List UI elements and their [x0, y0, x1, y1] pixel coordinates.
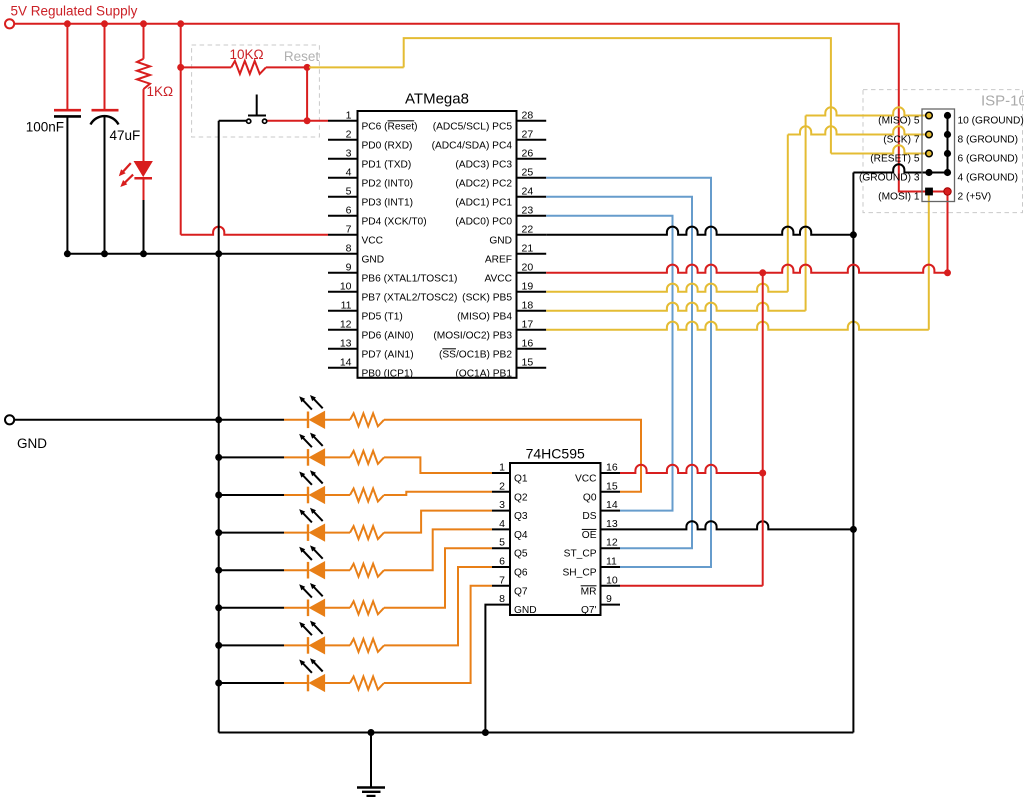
svg-text:7: 7: [346, 223, 352, 235]
pin 11 U2 SH_CP: [601, 566, 621, 568]
svg-text:16: 16: [606, 462, 618, 474]
svg-text:25: 25: [522, 166, 534, 178]
wire D1 cathode red: [143, 178, 145, 200]
junction on 5V rail: [64, 20, 71, 27]
pin 1 U2 Q1: [492, 472, 510, 474]
LED D6 arrow 1: [299, 547, 312, 560]
pin 15 U1 (OC1A) PB1: [517, 367, 547, 369]
wire LED 8 anode: [284, 682, 308, 684]
ISP group dashed box: [863, 90, 1023, 213]
wire gnd vertical right: [852, 173, 854, 733]
LED D5 orange: [307, 524, 309, 541]
svg-text:4: 4: [346, 166, 352, 178]
svg-text:PB0 (ICP1): PB0 (ICP1): [362, 368, 414, 379]
junction gnd rail: [101, 250, 108, 257]
junction LED row 7: [215, 642, 222, 649]
pin ISP right 8 (GROUND): [944, 131, 951, 138]
wire LED row 6 feed: [219, 607, 284, 609]
svg-text:8: 8: [499, 593, 505, 605]
pin 22 U1 GND: [517, 234, 547, 236]
LED D5 arrow 2: [310, 508, 323, 521]
pin 2 U2 Q2: [492, 491, 510, 493]
wire switch to node: [267, 120, 307, 122]
wire red vertical: [762, 273, 764, 586]
resistor R3 LED row 1: [350, 413, 384, 426]
junction gnd rail: [140, 250, 147, 257]
junction LED row 3: [215, 492, 222, 499]
wire LED row 4 feed: [219, 532, 284, 534]
wire C2 top: [104, 24, 106, 110]
node 5V: top rail: [10, 24, 948, 192]
pin ISP right 4 (GROUND): [944, 169, 951, 176]
pin 14 U2 DS: [601, 510, 621, 512]
wire MISO riser: [805, 116, 807, 311]
wire LED row 7 to U2 pin 6: [384, 567, 492, 645]
pin 7 U1 VCC: [328, 234, 358, 236]
LED D3 arrow 1: [299, 434, 312, 447]
svg-text:MR: MR: [581, 586, 597, 597]
wire LED 8 to resistor: [325, 682, 350, 684]
junction on 5V rail: [101, 20, 108, 27]
svg-text:Q3: Q3: [514, 511, 528, 522]
pin 3 U2 Q3: [492, 510, 510, 512]
wire C1 top: [66, 24, 68, 110]
LED D7 orange: [307, 600, 309, 617]
svg-text:5V Regulated Supply: 5V Regulated Supply: [11, 4, 138, 19]
svg-text:23: 23: [522, 204, 534, 216]
svg-text:Q7: Q7: [514, 586, 528, 597]
svg-text:PD3 (INT1): PD3 (INT1): [362, 197, 414, 208]
pin 23 U1 (ADC0) PC0: [517, 215, 547, 217]
svg-text:VCC: VCC: [362, 235, 384, 246]
pin 8 U1 GND: [328, 253, 358, 255]
svg-text:Reset: Reset: [284, 49, 320, 64]
svg-text:12: 12: [606, 537, 618, 549]
LED D2 arrow 1: [299, 396, 312, 409]
wire +5V isp down: [947, 192, 949, 273]
pin ISP left (RESET) 5: [926, 150, 933, 157]
svg-text:22: 22: [522, 223, 534, 235]
svg-text:24: 24: [522, 185, 534, 197]
ground symbol: [357, 733, 385, 797]
junction LED row 2: [215, 454, 222, 461]
wire LED row 5 feed: [219, 569, 284, 571]
svg-text:(ADC1) PC1: (ADC1) PC1: [455, 197, 512, 208]
wire MOSI pb3: [546, 322, 929, 330]
pin 9 U1 PB6 (XTAL1/TOSC1): [328, 272, 358, 274]
junction ground symbol: [368, 729, 375, 736]
wire LED 5 anode: [284, 569, 308, 571]
svg-text:Q6: Q6: [514, 568, 528, 579]
wire pin22 GND: [546, 227, 853, 235]
svg-text:(MOSI/OC2) PB3: (MOSI/OC2) PB3: [433, 330, 512, 341]
pin 14 U1 PB0 (ICP1): [328, 367, 358, 369]
svg-text:Q4: Q4: [514, 530, 528, 541]
wire ISP ground3: [853, 164, 947, 172]
pin 6 U2 Q6: [492, 566, 510, 568]
junction LED row 8: [215, 680, 222, 687]
wire LED row 3 feed: [219, 494, 284, 496]
wire LED row 8 feed: [219, 682, 284, 684]
LED D6 orange: [307, 562, 309, 579]
wire C1 bottom: [66, 116, 68, 253]
svg-text:3: 3: [499, 499, 505, 511]
svg-text:15: 15: [522, 356, 534, 368]
svg-text:2: 2: [499, 480, 505, 492]
svg-text:Q5: Q5: [514, 549, 528, 560]
pin 9 U2 Q7': [601, 604, 621, 606]
pin 17 U1 (MOSI/OC2) PB3: [517, 329, 547, 331]
svg-text:GND: GND: [489, 235, 512, 246]
pin 11 U1 PD5 (T1): [328, 310, 358, 312]
svg-text:20: 20: [522, 261, 534, 273]
svg-text:13: 13: [340, 337, 352, 349]
reset group dashed box: [192, 45, 320, 137]
LED D6 arrow 2: [310, 545, 323, 558]
pin 5 U2 Q5: [492, 547, 510, 549]
pin ISP right 2 (+5V): [944, 188, 951, 195]
svg-text:17: 17: [522, 318, 534, 330]
wire 595 VCC: [620, 465, 763, 473]
svg-text:9: 9: [346, 261, 352, 273]
LED D8 arrow 2: [310, 621, 323, 634]
pin 7 U2 Q7: [492, 585, 510, 587]
pin 16 U2 VCC: [601, 472, 621, 474]
wire LED row 1 to U2 pin 15 Q0: [384, 420, 641, 492]
svg-text:10: 10: [340, 280, 352, 292]
LED D8 arrow 1: [299, 622, 312, 635]
svg-text:1KΩ: 1KΩ: [147, 84, 174, 99]
junction GND pin22: [850, 231, 857, 238]
LED D2 orange: [307, 412, 309, 429]
pin ISP left (GROUND) 3: [925, 169, 932, 176]
pin 6 U1 PD4 (XCK/T0): [328, 215, 358, 217]
pin 26 U1 (ADC3) PC3: [517, 158, 547, 160]
wire LED 7 to resistor: [325, 644, 350, 646]
junction OE gnd: [850, 526, 857, 533]
wire LED 6 to resistor: [325, 607, 350, 609]
wire SCK pb5: [546, 284, 788, 292]
LED D9 arrow 1: [299, 660, 312, 673]
LED D7 arrow 1: [299, 584, 312, 597]
pin 10 U2 MR: [601, 585, 621, 587]
svg-text:OE: OE: [582, 530, 597, 541]
wire 5V branch down: [180, 24, 182, 235]
svg-text:16: 16: [522, 337, 534, 349]
svg-text:(OC1A) PB1: (OC1A) PB1: [455, 368, 512, 379]
svg-text:PD5 (T1): PD5 (T1): [362, 311, 403, 322]
svg-text:ST_CP: ST_CP: [564, 549, 597, 560]
resistor R5 LED row 3: [350, 489, 384, 502]
svg-text:(MOSI) 1: (MOSI) 1: [878, 192, 920, 203]
svg-text:VCC: VCC: [575, 474, 597, 485]
junction 10K: [177, 64, 184, 71]
LED D5 arrow 1: [299, 509, 312, 522]
pin 3 U1 PD1 (TXD): [328, 158, 358, 160]
svg-text:AREF: AREF: [485, 254, 512, 265]
svg-text:(ADC0) PC0: (ADC0) PC0: [455, 216, 512, 227]
connector J1 ISP-10 body: [922, 109, 955, 202]
junction on 5V rail: [140, 20, 147, 27]
LED D9 orange: [307, 675, 309, 692]
wire LED row 4 to U2 pin 3: [384, 511, 492, 533]
capacitor C1 100nF: [54, 109, 81, 112]
resistor R10 LED row 8: [350, 677, 384, 690]
pin 2 U1 PD0 (RXD): [328, 139, 358, 141]
svg-text:10: 10: [606, 574, 618, 586]
svg-text:5: 5: [499, 537, 505, 549]
wire LED 3 to resistor: [325, 494, 350, 496]
pin 4 U1 PD2 (INT0): [328, 177, 358, 179]
wire LED 1 to resistor: [325, 419, 350, 421]
wire LED 4 anode: [284, 532, 308, 534]
pin ISP left (SCK) 7: [926, 131, 933, 138]
pin 21 U1 AREF: [517, 253, 547, 255]
svg-text:6 (GROUND): 6 (GROUND): [958, 154, 1019, 165]
wire MOSI riser: [928, 192, 930, 330]
wire LED row 3 to U2 pin 2: [384, 492, 492, 495]
svg-text:27: 27: [522, 128, 534, 140]
wire PC0 pin23 to DS: [546, 216, 672, 511]
LED D4 arrow 2: [310, 470, 323, 483]
pin 13 U2 OE: [601, 528, 621, 530]
wire R2 to node: [266, 66, 307, 68]
LED D4 orange: [307, 487, 309, 504]
svg-text:9: 9: [606, 593, 612, 605]
wire SCK to ISP: [788, 126, 929, 134]
LED D3 arrow 2: [310, 433, 323, 446]
svg-text:8 (GROUND): 8 (GROUND): [958, 135, 1019, 146]
pin 13 U1 PD7 (AIN1): [328, 348, 358, 350]
junction LED row 4: [215, 529, 222, 536]
pin 5 U1 PD3 (INT1): [328, 196, 358, 198]
switch SW1 reset pushbutton: [247, 95, 267, 124]
svg-text:6: 6: [499, 556, 505, 568]
IC U2 74HC595 body: [510, 463, 601, 615]
wire LED row 1 feed: [219, 419, 284, 421]
pin 12 U2 ST_CP: [601, 547, 621, 549]
terminal 5V supply: [5, 19, 14, 28]
svg-text:PD2 (INT0): PD2 (INT0): [362, 178, 414, 189]
wire LED row 8 to U2 pin 7: [384, 586, 492, 683]
wire U2 GND to rail: [485, 605, 492, 733]
svg-text:Q7': Q7': [581, 605, 597, 616]
wire 5V to VCC pin7: [181, 227, 328, 235]
svg-text:100nF: 100nF: [26, 120, 64, 135]
svg-text:4 (GROUND): 4 (GROUND): [958, 173, 1019, 184]
pin 20 U1 AVCC: [517, 272, 547, 274]
wire node to pin1: [307, 120, 328, 122]
svg-text:13: 13: [606, 518, 618, 530]
wire GND terminal: [14, 419, 219, 421]
wire D1 to gnd rail: [143, 200, 145, 254]
wire MISO pb4: [546, 303, 805, 311]
LED D7 arrow 2: [310, 583, 323, 596]
svg-text:(MISO) PB4: (MISO) PB4: [457, 311, 512, 322]
pin 25 U1 (ADC2) PC2: [517, 177, 547, 179]
junction 595 VCC: [759, 470, 766, 477]
svg-text:(GROUND) 3: (GROUND) 3: [859, 173, 920, 184]
svg-text:PD4 (XCK/T0): PD4 (XCK/T0): [362, 216, 427, 227]
svg-text:ATMega8: ATMega8: [405, 91, 469, 108]
wire LED 4 to resistor: [325, 532, 350, 534]
svg-text:(ADC3) PC3: (ADC3) PC3: [455, 159, 512, 170]
wire reset yellow riser: [404, 38, 831, 153]
svg-text:1: 1: [499, 462, 505, 474]
svg-text:AVCC: AVCC: [484, 273, 512, 284]
svg-text:PD1 (TXD): PD1 (TXD): [362, 159, 412, 170]
svg-text:3: 3: [346, 147, 352, 159]
junction LED row 5: [215, 567, 222, 574]
junction at pin1 row: [304, 117, 311, 124]
wire LED 7 anode: [284, 644, 308, 646]
LED D1 red: [134, 162, 152, 177]
svg-text:Q0: Q0: [583, 492, 597, 503]
wire ISP ground bus: [947, 116, 949, 173]
svg-text:PD0 (RXD): PD0 (RXD): [362, 140, 413, 151]
svg-text:GND: GND: [514, 605, 537, 616]
svg-text:18: 18: [522, 299, 534, 311]
wire LED 2 to resistor: [325, 456, 350, 458]
svg-text:SH_CP: SH_CP: [563, 568, 597, 579]
svg-text:(SS/OC1B) PB2: (SS/OC1B) PB2: [439, 349, 512, 360]
svg-text:(SCK) 7: (SCK) 7: [883, 135, 920, 146]
svg-text:26: 26: [522, 147, 534, 159]
pin ISP left (MISO) 5: [926, 112, 933, 119]
svg-text:(ADC5/SCL) PC5: (ADC5/SCL) PC5: [433, 121, 513, 132]
wire reset to ISP pin: [831, 145, 929, 153]
pin 12 U1 PD6 (AIN0): [328, 329, 358, 331]
junction gnd rail: [215, 250, 222, 257]
junction reset node: [304, 64, 311, 71]
svg-text:4: 4: [499, 518, 505, 530]
svg-text:11: 11: [341, 299, 352, 311]
svg-text:8: 8: [346, 242, 352, 254]
wire to R2: [181, 66, 232, 68]
svg-text:PB7 (XTAL2/TOSC2): PB7 (XTAL2/TOSC2): [362, 292, 458, 303]
svg-text:2: 2: [346, 128, 352, 140]
svg-text:12: 12: [340, 318, 352, 330]
svg-text:GND: GND: [362, 254, 385, 265]
svg-text:14: 14: [606, 499, 618, 511]
svg-text:PB6 (XTAL1/TOSC1): PB6 (XTAL1/TOSC1): [362, 273, 458, 284]
wire R1 top: [143, 24, 145, 59]
wire gnd column vertical: [218, 121, 220, 733]
svg-text:Q2: Q2: [514, 492, 528, 503]
svg-text:21: 21: [522, 242, 534, 254]
svg-text:5: 5: [346, 185, 352, 197]
junction LED row 6: [215, 604, 222, 611]
wire LED 5 to resistor: [325, 569, 350, 571]
resistor R6 LED row 4: [350, 526, 384, 539]
svg-text:GND: GND: [17, 436, 47, 451]
svg-text:PD6 (AIN0): PD6 (AIN0): [362, 330, 414, 341]
svg-text:(SCK) PB5: (SCK) PB5: [462, 292, 512, 303]
wire PC2 pin25 to SH_CP: [546, 178, 711, 567]
resistor R7 LED row 5: [350, 564, 384, 577]
svg-text:10KΩ: 10KΩ: [229, 47, 263, 62]
svg-text:DS: DS: [582, 511, 596, 522]
junction gnd rail: [64, 250, 71, 257]
pin 27 U1 (ADC4/SDA) PC4: [517, 139, 547, 141]
pin 1 U1 PC6 (Reset): [328, 120, 358, 122]
svg-text:74HC595: 74HC595: [526, 446, 585, 462]
LED D1 arrow 2: [120, 175, 133, 187]
resistor R1 1K: [137, 59, 150, 89]
svg-text:6: 6: [346, 204, 352, 216]
resistor R2 10K: [231, 61, 266, 74]
op IC U1 ATMega8 body: [358, 111, 517, 378]
LED D3 orange: [307, 449, 309, 466]
LED D2 arrow 2: [310, 395, 323, 408]
terminal GND: [5, 415, 14, 424]
wire LED 1 anode: [284, 419, 308, 421]
svg-text:PD7 (AIN1): PD7 (AIN1): [362, 349, 414, 360]
svg-text:Q1: Q1: [514, 474, 528, 485]
svg-text:28: 28: [522, 109, 534, 121]
svg-text:15: 15: [606, 480, 618, 492]
wire AVCC: [546, 265, 947, 273]
resistor R4 LED row 2: [350, 451, 384, 464]
pin 16 U1 (SS/OC1B) PB2: [517, 348, 547, 350]
wire C2 bottom: [104, 116, 106, 254]
pin 18 U1 (MISO) PB4: [517, 310, 547, 312]
svg-text:ISP-10: ISP-10: [981, 93, 1024, 110]
wire PC1 pin24 to ST_CP: [546, 197, 692, 548]
svg-text:1: 1: [346, 109, 352, 121]
svg-text:11: 11: [606, 556, 617, 568]
svg-text:2 (+5V): 2 (+5V): [958, 192, 992, 203]
junction LED row 1: [215, 416, 222, 423]
pin ISP left (MOSI) 1: [925, 188, 933, 196]
svg-text:47uF: 47uF: [110, 128, 141, 143]
wire MR: [620, 585, 763, 587]
wire LED row 2 feed: [219, 456, 284, 458]
svg-text:19: 19: [522, 280, 534, 292]
wire switch left: [219, 120, 247, 122]
wire OE to gnd: [620, 521, 853, 529]
wire MISO to ISP: [806, 107, 929, 115]
svg-text:(ADC4/SDA) PC4: (ADC4/SDA) PC4: [432, 140, 513, 151]
pin 15 U2 Q0: [601, 491, 621, 493]
wire LED 2 anode: [284, 456, 308, 458]
wire LED row 2 to U2 pin 1: [384, 457, 492, 473]
wire bottom gnd rail: [219, 732, 854, 734]
pin ISP right 6 (GROUND): [944, 150, 951, 157]
svg-text:7: 7: [499, 574, 505, 586]
wire LED row 5 to U2 pin 4: [384, 529, 492, 570]
LED D4 arrow 1: [299, 472, 312, 485]
pin 10 U1 PB7 (XTAL2/TOSC2): [328, 291, 358, 293]
svg-text:10 (GROUND): 10 (GROUND): [958, 116, 1024, 127]
resistor R8 LED row 6: [350, 601, 384, 614]
LED D9 arrow 2: [310, 658, 323, 671]
svg-text:(RESET) 5: (RESET) 5: [870, 154, 920, 165]
wire LED 6 anode: [284, 607, 308, 609]
wire LED row 6 to U2 pin 5: [384, 548, 492, 608]
wire gnd rail to pin8: [67, 253, 328, 255]
resistor R9 LED row 7: [350, 639, 384, 652]
LED D1 arrow 1: [119, 163, 131, 176]
pin ISP right 10 (GROUND): [944, 112, 951, 119]
svg-text:PC6 (Reset): PC6 (Reset): [362, 121, 418, 132]
junction AVCC redv: [759, 269, 766, 276]
junction on 5V rail: [177, 20, 184, 27]
pin 4 U2 Q4: [492, 528, 510, 530]
LED D8 orange: [307, 637, 309, 654]
pin 8 U2 GND: [492, 604, 510, 606]
wire reset node down: [306, 67, 308, 120]
